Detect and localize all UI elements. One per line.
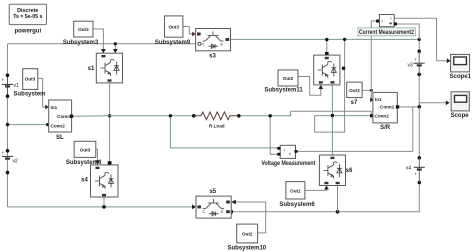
wire: Subsystem11 output to s2 gate bbox=[298, 77, 323, 96]
svg-text:Conn2: Conn2 bbox=[375, 114, 390, 119]
wire: s6 emitter drop to bottom-right bus bbox=[337, 186, 339, 212]
svg-text:+: + bbox=[2, 150, 5, 155]
svg-text:i: i bbox=[391, 16, 392, 21]
svg-text:Out1: Out1 bbox=[290, 188, 301, 193]
svg-text:Out2: Out2 bbox=[242, 232, 253, 237]
wire: s1 collector drop from top bus bbox=[113, 44, 118, 53]
wire: s4 emitter down to bottom-left bus bbox=[102, 197, 106, 209]
node: junction s6 emitter on bottom-right bus bbox=[336, 210, 340, 214]
battery v3 bbox=[408, 50, 425, 77]
wire: bottom-left bus y=207 to s5 left port bbox=[8, 205, 197, 210]
wire: loop rectangle sides below load line bbox=[315, 115, 345, 132]
IGBT s1 bbox=[88, 53, 123, 83]
svg-text:Out3: Out3 bbox=[25, 76, 36, 81]
IGBT s2 bbox=[314, 55, 340, 85]
wire: Subsystem4 gate wire down to s4 gate bbox=[95, 149, 100, 165]
subsystem Subsystem4 bbox=[66, 141, 102, 166]
svg-text:v: v bbox=[289, 151, 291, 156]
svg-text:Out3: Out3 bbox=[78, 27, 89, 32]
subsystem Subsystem10 bbox=[227, 224, 266, 251]
wire: v4 leg vertical from Conn1 junction down through v4 bbox=[418, 107, 420, 158]
svg-text:v2: v2 bbox=[13, 159, 19, 165]
wire: junction x=170.4 load line down then right to Voltage Measurement plus bbox=[169, 114, 278, 148]
subsystem Subsystem9 bbox=[155, 16, 191, 46]
wire: S/R Conn1 output to junction and Scope bbox=[397, 100, 449, 108]
svg-text:R Load: R Load bbox=[209, 124, 225, 129]
wire: load line right of R load to jog at x=290.6 bbox=[239, 111, 291, 116]
wire: Subsystem3 gate wire to s1 bbox=[93, 29, 106, 53]
svg-text:s5: s5 bbox=[209, 189, 216, 195]
svg-text:In1: In1 bbox=[375, 97, 382, 102]
svg-text:v1: v1 bbox=[14, 83, 20, 89]
wire: s2 collector drop from s3 output line bbox=[325, 38, 329, 55]
svg-text:SL: SL bbox=[56, 135, 64, 141]
wire: s3 output teal y=39.4 rail to v3 branch corner bbox=[231, 38, 421, 50]
IGBT s5 (horizontal) bbox=[196, 189, 231, 218]
wire: gray segment y=111.2 to Conn2 jog bbox=[291, 111, 373, 116]
subsystem Subsystem (v1 gate driver) bbox=[13, 69, 45, 98]
node: junction top bus / s1 collector bbox=[114, 42, 117, 45]
wire: junction x=270.2 load line down to Voltage Measurement minus bbox=[269, 114, 278, 154]
svg-text:Out2: Out2 bbox=[283, 76, 294, 81]
wire: right DC bus x=419.2 v3 bottom to Conn1 junction bbox=[418, 74, 420, 107]
wire: left bus junction to SL Conn2 bbox=[6, 123, 50, 126]
node: Conn2 port marker S/R bbox=[370, 114, 373, 117]
svg-text:Conn1: Conn1 bbox=[57, 114, 72, 119]
subsystem s7 bbox=[347, 82, 362, 106]
svg-text:In1: In1 bbox=[51, 105, 58, 110]
scope Scope1 bbox=[450, 54, 472, 80]
svg-text:S/R: S/R bbox=[380, 125, 391, 131]
svg-text:C: C bbox=[203, 210, 206, 214]
svg-text:s3: s3 bbox=[209, 53, 216, 59]
wire: s2 emitter vertical x=332.4 from s2 down through load node to s6 collector bbox=[331, 85, 334, 155]
svg-text:Scope: Scope bbox=[451, 113, 470, 119]
svg-text:Conn1: Conn1 bbox=[380, 105, 395, 110]
svg-text:Discrete: Discrete bbox=[17, 8, 38, 14]
IGBT s6 bbox=[319, 155, 353, 186]
svg-text:Subsystem6: Subsystem6 bbox=[279, 202, 315, 208]
svg-text:Out3: Out3 bbox=[80, 147, 91, 152]
battery v1 bbox=[2, 74, 20, 98]
wire: Current Measurement2 lower-right port to right DC bus bbox=[397, 24, 420, 39]
svg-text:Subsystem11: Subsystem11 bbox=[264, 88, 303, 94]
subsystem Subsystem3 bbox=[63, 21, 99, 46]
svg-text:Subsystem10: Subsystem10 bbox=[227, 245, 266, 251]
wire: top gray bus y=43.8 from left bus to s3 lower-left port bbox=[8, 43, 196, 45]
subsystem Subsystem6 bbox=[279, 182, 315, 208]
node: junction load line / s1-s4 leg bbox=[108, 114, 111, 117]
wire: Subsystem gate wire down to SL In1 bbox=[38, 78, 49, 109]
wire: left DC bus vertical x=7.5 from top corner through v1,v2 to bottom bbox=[7, 44, 9, 207]
subsystem Subsystem11 bbox=[264, 70, 303, 94]
annotation box: Current Measurement2 label bbox=[358, 28, 415, 36]
svg-text:Voltage Measurement: Voltage Measurement bbox=[261, 161, 315, 167]
wire: Voltage Measurement output right then up to scope wire bbox=[296, 107, 413, 151]
svg-text:s1: s1 bbox=[88, 66, 95, 72]
resistor R Load bbox=[192, 112, 241, 129]
scope Scope bbox=[451, 92, 470, 119]
svg-text:v4: v4 bbox=[406, 166, 412, 172]
wire: Current Measurement2 left port down to S/R In1 bbox=[370, 21, 375, 102]
wire: bottom-right bus y=211.9 from s5 to v4 leg corner bbox=[230, 182, 419, 213]
svg-text:Ts = 5e-05 s: Ts = 5e-05 s bbox=[13, 14, 42, 20]
wire: Subsystem9 gate wire into s3 upper-left port bbox=[183, 27, 196, 37]
svg-text:+: + bbox=[415, 172, 418, 177]
battery v4 bbox=[406, 156, 425, 184]
svg-text:s4: s4 bbox=[81, 178, 88, 184]
svg-text:+: + bbox=[414, 57, 417, 62]
IGBT s4 bbox=[81, 165, 118, 197]
battery v2 bbox=[2, 149, 19, 174]
svg-text:Out3: Out3 bbox=[349, 88, 360, 93]
wire: teal branch from Conn2 along y=115.5 to loop corner bbox=[315, 115, 370, 117]
wire: vertical x=344.6 from s3 output line down to loop rectangle bbox=[344, 40, 346, 116]
subsystem S/R bbox=[373, 92, 399, 131]
svg-text:Scope1: Scope1 bbox=[450, 74, 472, 80]
svg-text:s6: s6 bbox=[346, 168, 353, 174]
svg-text:Out3: Out3 bbox=[168, 25, 179, 30]
IGBT s3 (horizontal) bbox=[196, 29, 231, 60]
node: junction dot right of s2 measurement port bbox=[342, 67, 346, 71]
wire: Subsystem6 output to s6 gate bbox=[305, 186, 329, 191]
wire: SL Conn1 output to load line bbox=[72, 115, 110, 117]
svg-text:C: C bbox=[202, 43, 205, 47]
svg-text:s7: s7 bbox=[351, 100, 358, 106]
wire: s1 emitter down to load line and to s4 collector bbox=[108, 83, 112, 165]
current measurement block CM2 bbox=[358, 15, 415, 37]
svg-text:Conn2: Conn2 bbox=[51, 124, 66, 129]
wire: Subsystem10 output up to s5 right-top port bbox=[231, 200, 266, 233]
wire: s7 output to S/R In1 bbox=[362, 89, 373, 92]
svg-text:Subsystem: Subsystem bbox=[13, 92, 45, 98]
voltage measurement block bbox=[261, 145, 315, 167]
powergui block bbox=[9, 4, 46, 34]
subsystem SL bbox=[49, 100, 74, 141]
svg-text:Subsystem3: Subsystem3 bbox=[63, 40, 99, 46]
svg-text:powergui: powergui bbox=[14, 28, 41, 34]
svg-text:Current Measurement2: Current Measurement2 bbox=[359, 30, 415, 36]
svg-text:+: + bbox=[2, 78, 5, 83]
svg-text:Subsystem9: Subsystem9 bbox=[155, 40, 191, 46]
wire: Current Measurement2 upper output to Scope1 bbox=[394, 18, 450, 63]
wire: load line y=115.8 from s1 leg to R load bbox=[110, 115, 194, 117]
svg-text:v3: v3 bbox=[408, 62, 414, 68]
